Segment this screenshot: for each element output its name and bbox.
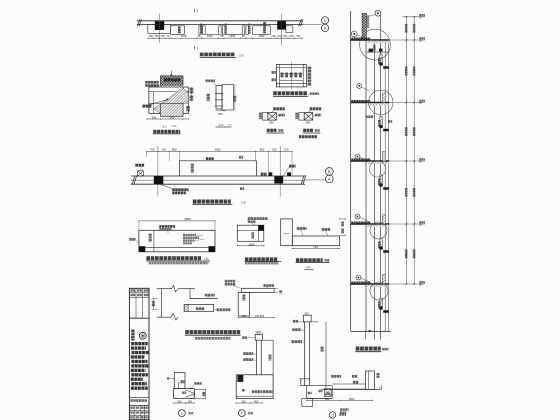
tie beam span line 1 [205,33,218,35]
svg-text:150-600: 150-600 [255,315,265,318]
svg-text:2: 2 [241,412,243,416]
V-V bar with ties [215,86,223,110]
detail 2D2 [259,107,285,133]
institute stamp [139,332,146,339]
sec2-2 title [296,258,330,262]
title block border [129,288,149,419]
floor 2 slab annotation [351,100,370,102]
corridor AC slab plan (middle) [237,217,282,264]
section 1-1 column strengthening detail [143,71,194,134]
wall vertical line far left [350,11,352,331]
V-V title [216,123,233,127]
mid detail box [237,225,263,241]
svg-text:2-2: 2-2 [307,265,312,269]
d3 small dims [308,390,323,395]
floor 3 mullion above [383,152,386,162]
d3 corner notes [340,408,349,413]
d3 top cap 500 [303,313,311,322]
column KZ2 (filled) [277,21,286,30]
centerline arrow above [170,71,172,77]
section title [355,347,388,352]
svg-text:200: 200 [218,112,223,116]
floor 2 slab hatch [366,103,389,105]
sec2-2 left bar [281,219,293,246]
floor 4 slab hatch [366,225,389,227]
svg-text:750: 750 [313,245,318,249]
wall vertical line 4 [380,15,382,339]
d1 bubble 1 [179,410,194,417]
ground line [351,330,391,332]
detail 2D2-1 bottom dim 250 [306,120,311,124]
svg-text:1000: 1000 [259,34,265,38]
d3 bubble 3 [329,412,346,418]
svg-text:1:50: 1:50 [238,53,244,57]
tie beam LL2 outline [253,22,271,34]
top dimension line [146,148,292,153]
detA right note [214,308,230,311]
floor 5 slab annotation [351,282,370,284]
corridor first floor strengthening plan (left) [129,217,215,264]
wall vertical line 2 [365,14,367,332]
detail V-V column side view [206,80,237,128]
d1 left leader 40 [167,377,174,379]
top tie-beam plan view [137,9,329,58]
detA beam rect [184,304,214,311]
cwd right rotated 200 [274,288,282,293]
d2 left rebar labels [243,352,256,361]
svg-text:700: 700 [277,34,282,38]
floor 4 beam line [351,223,418,225]
elevation outer frame [276,64,306,87]
plan title [200,53,245,58]
svg-text:1400: 1400 [181,34,187,38]
svg-text:350: 350 [152,116,157,120]
tie beam elevation detail [272,62,320,97]
svg-text:1200: 1200 [207,34,213,38]
d2 base corner plate [237,375,243,382]
d2 base rectangle [236,375,273,399]
d1 bottom dim [173,401,195,404]
sec2-2 right mid dim [340,229,346,236]
svg-text:700: 700 [271,34,276,38]
svg-text:700: 700 [284,148,289,152]
floor 2 beam line [351,102,418,104]
svg-text:1: 1 [196,46,198,50]
detail 2D2-1 left dim 250 [295,113,298,120]
level markers [418,14,426,286]
corner wall detail (top right) [225,280,282,318]
elevation left dims [272,71,276,81]
stirrup pair 1 [199,24,205,35]
detail 2D2 side plate [263,113,268,121]
detA bottom break [157,313,178,320]
d3 right bar lines [332,384,366,389]
svg-text:3: 3 [332,414,334,418]
new concrete hatched wedge [154,88,189,113]
floor detail circle 3 [370,161,386,177]
tie beam LL1 outline [170,26,184,35]
ref bubble floor1 [351,31,363,38]
cwd bottom dim [238,315,275,318]
roof level line [402,16,422,18]
svg-text:V-V: V-V [219,123,224,127]
AC machine slab section 2-2 (right) [281,218,346,269]
inner annotation block [183,234,205,245]
svg-text:B: B [328,170,331,174]
detail 2D2-1 top rebar label [307,107,321,113]
svg-text:1500: 1500 [349,398,355,401]
cwd labels [225,280,274,288]
svg-text:250: 250 [306,120,311,124]
column centerline left [157,146,159,197]
svg-text:A: A [324,26,327,30]
elevation title 2 [193,200,247,205]
d1 base inner 200 [182,392,186,394]
column inner lines [149,87,188,113]
leader arrow new column [143,99,169,108]
d1 right leader 150x600 [191,382,202,389]
floor ticks on outer wall line [350,39,352,285]
sec2-2 arm [292,236,339,246]
inner vertical line [153,230,155,252]
d3 rotated dim mid [321,347,324,352]
d2 top cap [255,332,262,340]
sec2-2 mark [305,265,314,269]
svg-text:700: 700 [148,34,153,38]
d3 left foot box [299,378,310,386]
d2 right boundary [262,340,273,375]
svg-text:250: 250 [269,120,274,124]
detail 2D2-1 X-braced box [304,113,313,121]
detail 2D2 bottom dim 250 [269,120,274,124]
corner column filled left [139,246,145,252]
elevation mid rebar lines [280,74,304,81]
mid detail top labels [248,217,268,225]
grid bubble B mid [325,168,333,176]
column C1 filled section [154,176,164,184]
grid line to bubbles [305,179,325,181]
mid bottom dim 1500 [237,242,265,246]
svg-text:A: A [328,177,331,181]
svg-text:500: 500 [325,398,330,401]
d3 X anchor box [324,389,331,397]
column KZ2 centerline [281,14,283,46]
d3 right pier rect [366,371,380,390]
existing beam hatched block [161,76,184,85]
floor 3 slab hatch [366,162,389,164]
slab depth rotated dim [191,164,194,173]
ref bubble floor4 [355,214,371,223]
svg-text:L: L [324,19,326,23]
wall vertical line 3 [373,40,375,339]
label 1-1 scale [163,124,177,128]
right beam break mark [301,176,306,185]
bottom dimension line 1-1 [146,116,188,120]
storey dim ticks and texts [405,16,415,285]
d3 top right tick [310,321,318,322]
svg-text:700: 700 [283,34,288,38]
floor 4 window mullion below [378,238,389,253]
floor detail circle 2 [369,90,393,114]
institute name text block [131,342,149,390]
floor 1 window mullion below [378,54,389,69]
revision table top [129,288,149,318]
left anchor box [137,171,143,176]
svg-text:700: 700 [150,148,155,152]
d2 bubble 2 [238,410,253,417]
parapet column hatched [362,14,369,41]
d1 step note 200 [179,380,185,389]
floor 5 window mullion below [378,298,389,313]
mid rotated dim 600 [251,232,254,238]
grid extension line to bubbles [303,24,322,26]
d2 right rotated dim 600 [269,355,272,361]
leader corridor note [284,165,296,176]
grid bubble A mid [325,175,333,183]
d3 right end ticks [379,385,381,390]
detail 2D2 title [266,129,284,133]
d3 lower-left box [302,399,313,407]
stirrup pair 3 [242,24,250,35]
svg-text:1:50: 1:50 [241,201,246,204]
main slab rectangle [139,230,215,252]
detail A wall and footing treatment [152,285,241,339]
inner rotated dim 1500 [149,234,152,242]
ref bubble floor2 [357,84,370,92]
corner column filled right [209,246,216,252]
floor detail circle 5 [370,282,388,300]
wall vertical line 6 [388,40,390,331]
floor 1 beam line [351,39,418,41]
wall vertical line 5 [384,40,386,331]
detA left wall line [161,289,163,318]
column KZ1 centerline [159,14,161,44]
beam outline under column 1 [148,25,171,34]
svg-text:1:50: 1:50 [204,258,209,261]
beam bottom chord line [137,24,303,26]
svg-text:800: 800 [172,148,177,152]
V-V outer outline [222,85,233,111]
svg-text:4000: 4000 [215,148,221,152]
beam mid lines [131,179,305,181]
d2 base inner line [236,395,273,397]
ref bubble floor5 [356,275,372,283]
connecting slab rectangle [179,161,256,176]
V-V top label [206,80,217,86]
detail 2D2-1 right label 4D25 [313,114,321,117]
svg-text:500: 500 [256,332,261,335]
floor 4 slab annotation [351,222,370,224]
elevation inner frame lines [276,64,306,87]
detail 2D2-1 side plate [299,113,304,121]
elevation right rotated dim [308,67,312,86]
stirrup pair 2 [219,24,227,35]
beam top chord line [137,20,303,22]
section 1-1 subtitle [153,130,181,134]
plan b title [245,257,282,264]
beam top line [131,175,305,177]
mid detail corner column [258,225,263,230]
d3 platform [301,386,332,399]
d3 bottom dim [306,398,373,401]
grid mark (1) bottom [195,46,199,50]
floor 5 slab hatch [366,285,389,287]
cwd left leg [238,292,249,316]
svg-text:150: 150 [188,401,193,404]
V-V bottom dim 200 [216,111,227,116]
d1 stem rectangle [174,373,185,389]
anchor plates beside C2 [261,172,291,176]
retaining wall detail 3 [292,313,382,419]
roof ref bubble [367,10,381,16]
beam outline under column 2 [286,26,293,33]
d3 rebar labels right [331,375,358,384]
detA left dim 300 [152,299,158,310]
svg-text:1:20: 1:20 [172,125,177,128]
detA slab rebar label [205,294,215,299]
beam bottom line [131,183,305,185]
elevation stirrup text row [281,73,302,78]
leader new beam note [160,184,189,194]
d3 right boundary line [325,322,327,390]
plan a title [146,256,210,264]
floor detail circle 1 [360,29,391,60]
svg-text:700: 700 [160,34,165,38]
corridor strengthening elevation [131,146,333,205]
detail A title [185,330,241,340]
svg-text:700: 700 [154,34,159,38]
tie beam span line 2 [225,33,242,35]
detA slab top line [190,298,218,300]
floor2 rebar labels [366,116,393,123]
d2 base rebar labels [242,389,272,393]
detail 2D2-1 title [303,129,321,133]
left annotation strengthening zone [145,81,162,87]
slab label [206,157,214,160]
V-V left rebar label [207,94,210,101]
detA top line with break [157,285,195,292]
storey dimension lines [406,17,414,284]
svg-text:150: 150 [241,401,246,404]
floor 3 slab annotation [351,159,370,161]
floor 2 mullion above [383,93,386,103]
foundation hatched block [161,103,184,116]
ref bubble floor3 [355,154,371,161]
svg-text:1: 1 [196,9,198,13]
svg-text:1500: 1500 [248,242,255,246]
plan dimension line [147,34,303,39]
floor 4 mullion above [383,215,386,225]
column C2 filled section [274,176,283,183]
svg-text:700: 700 [289,34,294,38]
detail 2D2-1 [295,107,321,133]
sec2-2 right top dim [339,218,346,226]
stamp side text [131,330,134,341]
svg-text:1-1: 1-1 [163,124,168,128]
foundation lines below ground [366,331,381,339]
d2 left dim 200 [242,336,255,339]
elevation centerline [290,62,292,90]
left beam break mark [132,176,137,185]
svg-text:150: 150 [242,315,247,318]
d2 stem double line [256,340,261,375]
left rebar label [129,238,139,243]
note below 2D2-1 [299,135,317,138]
elevation title [273,91,319,96]
title block strip [129,288,149,419]
svg-text:4500: 4500 [184,217,191,221]
right dim texts 250/250 [186,87,193,111]
svg-text:1: 1 [181,412,183,416]
svg-text:700: 700 [272,148,277,152]
floor detail circle 4 [370,222,387,239]
floor 3 window mullion below [378,175,389,190]
d3 stem double line [305,322,310,386]
floor 1 slab hatch [366,41,389,43]
floor 5 mullion above [383,275,386,285]
grid bubble A [321,24,328,31]
cwd top bar [241,288,274,292]
detail 2D2 X-braced box [268,113,277,121]
floor1 detail contents [366,45,389,52]
svg-text:600: 600 [170,116,175,120]
svg-text:700: 700 [161,148,166,152]
bottom edge inner line [145,246,208,248]
d1 base rectangle [174,389,195,399]
left rebar label 6D14 [135,164,144,171]
svg-text:700: 700 [296,34,301,38]
cwd inner dim 200 [242,295,245,301]
top dim 4500 [138,217,215,230]
right break mark [299,19,304,26]
svg-text:800: 800 [260,148,265,152]
svg-text:150: 150 [177,401,182,404]
right small dims 250 [239,156,244,190]
floor 3 beam line [351,160,418,162]
d3 left labels [292,320,305,343]
bottom info table [129,397,149,419]
left break mark [137,19,142,26]
column outline box [149,87,188,113]
foundation detail 2 retaining stem [236,332,273,417]
sec2-2 arm labels [297,227,330,236]
grid bubble L [321,17,328,24]
detail 2D2 left dim 250 [259,113,262,120]
d2 bottom dim [236,401,263,404]
detA right wall line [189,289,191,299]
mid detail inner lines [237,225,263,241]
detail 2D2 right label 4D25 [277,114,285,117]
floor 2 window mullion below [378,117,389,132]
d1 right extension [194,389,205,398]
building external wall section [350,10,425,351]
foundation detail 1 [167,373,206,417]
column KZ1 (filled) [155,21,164,30]
detail 2D2 top rebar label [271,107,285,113]
column centerline right [279,146,281,197]
V-V right dim [233,85,236,111]
slab note top [159,225,175,233]
d1 wedge arrow [186,390,195,397]
floor 1 slab annotation [351,38,370,40]
sec2-2 bottom dim 750 [292,245,340,249]
dim extension lines [147,152,292,177]
grid mark (1) top [195,9,199,13]
svg-text:1200: 1200 [229,34,235,38]
floor 5 beam line [351,283,418,285]
d3 long base line [321,389,381,391]
svg-text:400: 400 [254,401,259,404]
